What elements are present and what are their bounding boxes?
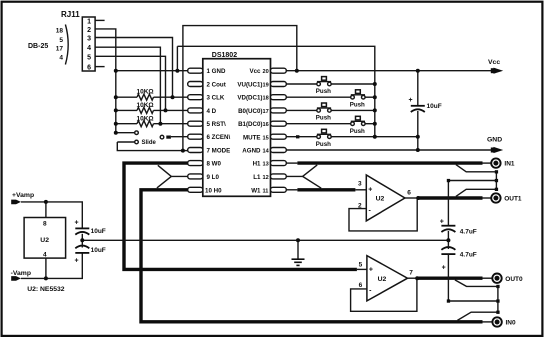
svg-text:10uF: 10uF — [91, 228, 106, 235]
svg-text:Push: Push — [316, 88, 331, 95]
svg-text:MUTE: MUTE — [243, 134, 261, 141]
svg-text:15: 15 — [263, 135, 269, 141]
svg-text:4: 4 — [59, 55, 63, 62]
svg-text:Vcc: Vcc — [249, 68, 261, 75]
svg-text:10KΩ: 10KΩ — [137, 102, 154, 109]
svg-text:OUT1: OUT1 — [504, 196, 522, 203]
svg-text:18: 18 — [56, 27, 64, 34]
wire shield bus bottom — [497, 286, 499, 312]
svg-text:+: + — [442, 265, 446, 272]
wire U2A feedback — [349, 198, 417, 231]
svg-text:6: 6 — [407, 189, 411, 196]
wire gnd link riser — [176, 46, 178, 70]
pushbutton S1 — [316, 77, 331, 96]
svg-text:4: 4 — [43, 252, 47, 259]
svg-text:OUT0: OUT0 — [505, 276, 523, 283]
wire IN0 shield prong — [457, 312, 498, 320]
power flag -Vamp — [11, 270, 31, 281]
svg-text:AGND: AGND — [242, 148, 261, 155]
jack OUT0 — [492, 274, 523, 283]
svg-text:IN1: IN1 — [504, 161, 515, 168]
svg-text:4.7uF: 4.7uF — [460, 252, 477, 259]
svg-text:17: 17 — [263, 109, 269, 115]
svg-text:4.7uF: 4.7uF — [460, 228, 477, 235]
svg-text:-Vamp: -Vamp — [11, 270, 31, 277]
wire gnd link to push common — [177, 46, 374, 136]
svg-text:4 D: 4 D — [207, 108, 217, 115]
connector J1 RJ11 body — [61, 10, 95, 72]
wire IN1 shield prong — [456, 165, 497, 172]
wire U2A output — [405, 197, 492, 199]
U1 pin labels right — [237, 68, 269, 194]
jack OUT1 — [491, 193, 522, 202]
wire GND rail left — [116, 70, 188, 72]
svg-text:3: 3 — [87, 36, 91, 43]
svg-text:RJ11: RJ11 — [61, 10, 80, 19]
wire U2B output — [408, 277, 493, 279]
wire S1 to common — [331, 83, 375, 85]
wire +V to U2 pin8 — [45, 202, 47, 218]
wire AGND rail — [286, 149, 494, 151]
svg-text:W1: W1 — [251, 187, 261, 194]
capacitor C2 4.7uF — [440, 181, 477, 241]
wire U2B input — [357, 268, 367, 270]
svg-text:1: 1 — [87, 18, 91, 25]
svg-text:6: 6 — [359, 282, 363, 289]
svg-text:+: + — [409, 97, 413, 104]
svg-text:DS1802: DS1802 — [212, 52, 237, 59]
svg-text:7: 7 — [409, 270, 413, 277]
wire L1 fork — [286, 165, 321, 188]
resistor R2 10K — [116, 102, 188, 113]
wire RJ11 pin4 to RST — [95, 47, 160, 124]
svg-text:+: + — [75, 220, 79, 227]
svg-text:2: 2 — [87, 27, 91, 34]
svg-text:13: 13 — [263, 162, 269, 168]
svg-text:U2: U2 — [376, 196, 385, 203]
svg-text:Push: Push — [316, 115, 331, 122]
wire RJ11 pin2 to GND rail — [95, 29, 116, 71]
wire pin15 MUTE to push S5 — [286, 136, 317, 138]
svg-text:10 H0: 10 H0 — [205, 187, 222, 194]
svg-text:17: 17 — [56, 45, 64, 52]
svg-text:10KΩ: 10KΩ — [137, 115, 154, 122]
wire pulldown bus vertical — [115, 71, 117, 133]
svg-text:8 W0: 8 W0 — [207, 161, 222, 168]
svg-text:5 RST\: 5 RST\ — [207, 121, 227, 128]
wire MODE to Vcc link — [183, 26, 297, 150]
jack IN0 — [492, 317, 516, 326]
pushbutton S2 — [350, 90, 365, 109]
wire S4 to common — [365, 123, 375, 125]
wire pin19 to push S1 — [286, 83, 317, 85]
svg-text:14: 14 — [263, 149, 270, 155]
wire +Vamp rail — [21, 202, 82, 228]
wire W1 thick to opamp U2A — [286, 189, 366, 191]
op-amp power U2 box — [24, 218, 66, 259]
wire S2 to common — [365, 96, 375, 98]
capacitor C3 4.7uF — [441, 240, 476, 301]
svg-text:5: 5 — [59, 37, 63, 44]
op-amp U2B — [359, 256, 414, 301]
wire RJ11 pin1 stub — [95, 19, 105, 21]
svg-text:Push: Push — [350, 101, 365, 108]
svg-text:3: 3 — [358, 180, 362, 187]
power flag +Vamp — [11, 192, 34, 204]
svg-text:L1: L1 — [253, 174, 261, 181]
wire U2B feedback — [351, 278, 417, 311]
capacitor C5 10uF — [75, 240, 106, 264]
U1 pin stubs left — [188, 68, 203, 192]
wire S3 to common — [331, 109, 375, 111]
svg-text:20: 20 — [263, 69, 269, 75]
svg-text:10uF: 10uF — [427, 103, 442, 110]
wire -Vamp rail — [21, 253, 82, 279]
svg-text:18: 18 — [263, 96, 269, 102]
svg-text:1 GND: 1 GND — [207, 68, 226, 75]
wire pin17 to push S3 — [286, 109, 317, 111]
power flag Vcc — [488, 59, 503, 74]
svg-text:6: 6 — [87, 65, 91, 72]
wire pin16 to push S4 — [286, 123, 351, 125]
wire analog ground spine — [82, 239, 448, 241]
wire H0 thick to IN0 — [141, 190, 492, 322]
resistor R3 10K — [116, 115, 188, 126]
svg-text:+: + — [369, 267, 373, 274]
resistor R1 10K — [116, 89, 188, 101]
pushbutton S3 — [316, 103, 331, 122]
svg-text:H1: H1 — [253, 161, 261, 168]
wire shield bus top — [495, 172, 497, 190]
wire RJ11 pin3 to CLK — [95, 38, 172, 98]
svg-text:B1(DC0): B1(DC0) — [238, 121, 262, 128]
node stub on MUTE row — [296, 135, 299, 138]
power flag GND — [487, 137, 503, 154]
wire H1 thick to IN1 — [286, 162, 491, 164]
svg-text:4: 4 — [87, 45, 91, 52]
svg-text:U2: U2 — [378, 276, 387, 283]
connector DB-25 pin labels — [28, 25, 68, 65]
svg-text:10KΩ: 10KΩ — [137, 89, 154, 96]
svg-text:11: 11 — [263, 188, 269, 194]
svg-text:VD(DC1): VD(DC1) — [237, 95, 262, 102]
svg-text:+Vamp: +Vamp — [12, 192, 34, 199]
jack IN1 — [491, 158, 515, 167]
svg-text:U2: NE5532: U2: NE5532 — [27, 286, 65, 293]
wire cap top to shield bus — [448, 180, 496, 182]
svg-text:+: + — [368, 187, 372, 194]
wire OUT0 shield prong — [455, 280, 498, 287]
svg-text:8: 8 — [43, 221, 47, 228]
wire cap bottom to shield bus — [448, 300, 498, 302]
svg-text:16: 16 — [263, 122, 269, 128]
capacitor C4 10uF — [75, 220, 106, 241]
ground — [292, 240, 305, 265]
wire OUT1 shield prong — [456, 189, 497, 196]
op-amp U2A — [358, 175, 411, 221]
U1 pin stubs right — [271, 68, 287, 192]
svg-text:IN0: IN0 — [506, 320, 517, 327]
svg-text:7 MODE: 7 MODE — [207, 148, 231, 155]
svg-text:U2: U2 — [40, 237, 49, 244]
wire W0 thick to opamp U2B — [124, 163, 357, 269]
svg-text:10uF: 10uF — [91, 247, 106, 254]
wire L0 fork — [157, 165, 188, 188]
U1 pin labels left — [205, 68, 231, 194]
svg-text:+: + — [440, 219, 444, 226]
pushbutton S4 — [350, 116, 365, 135]
svg-text:6 ZCEN\: 6 ZCEN\ — [207, 134, 231, 141]
slide switch S6 — [116, 131, 188, 151]
svg-text:5: 5 — [359, 262, 363, 269]
svg-text:DB-25: DB-25 — [28, 43, 48, 50]
wire Vcc rail — [286, 70, 494, 72]
wire pin18 to push S2 — [286, 96, 351, 98]
svg-text:9 L0: 9 L0 — [207, 174, 220, 181]
wire RJ11 pin5 to D — [95, 56, 165, 110]
wire S5 to cap node — [331, 136, 418, 138]
wire RJ11 pin6 stub — [95, 66, 105, 68]
svg-text:+: + — [75, 258, 79, 265]
pushbutton S5 — [316, 129, 331, 148]
svg-text:5: 5 — [87, 54, 91, 61]
svg-text:VU(UC1): VU(UC1) — [237, 82, 262, 89]
svg-text:12: 12 — [263, 175, 269, 181]
svg-text:Slide: Slide — [142, 140, 157, 146]
capacitor C1 10uF — [409, 71, 442, 150]
IC U1 DS1802 body — [203, 52, 271, 196]
svg-text:GND: GND — [487, 137, 502, 144]
svg-text:Push: Push — [350, 128, 365, 135]
svg-text:B0(UC0): B0(UC0) — [238, 108, 262, 115]
svg-text:Vcc: Vcc — [488, 59, 500, 66]
svg-text:3 CLK: 3 CLK — [207, 95, 225, 102]
svg-text:19: 19 — [263, 83, 269, 89]
label U2 part — [27, 286, 65, 293]
svg-text:Push: Push — [316, 141, 331, 148]
wire U2 pin4 to -V — [45, 258, 47, 278]
svg-text:2 Cout: 2 Cout — [207, 82, 226, 89]
